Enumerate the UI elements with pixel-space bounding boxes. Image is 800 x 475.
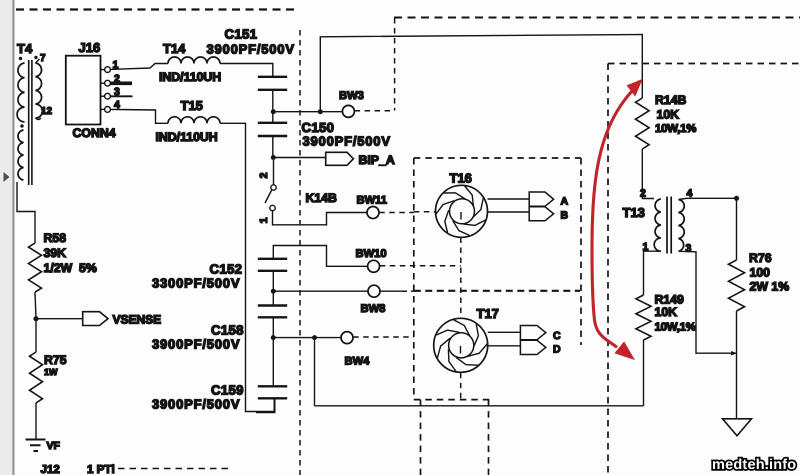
transformer T13 right winding <box>679 200 685 252</box>
node corner pin4 <box>734 196 739 201</box>
connector J16 body <box>66 56 101 125</box>
svg-text:CONN4: CONN4 <box>73 126 116 140</box>
resistor R76 <box>729 260 745 311</box>
wire C151 to C150 with BW3 tap <box>272 90 274 123</box>
transformer T4 right winding <box>36 63 43 118</box>
ball BW4 <box>341 332 353 344</box>
dashed box right region (left edge) <box>607 64 609 475</box>
dashed line bottom left <box>118 468 233 470</box>
scrollbar sidebar <box>0 0 15 475</box>
switch K14B contact 2 <box>271 185 276 190</box>
wire switch to BW11 <box>273 211 368 225</box>
wire cap chain to BW3 <box>276 111 343 113</box>
wire T14 to C151 <box>220 64 273 77</box>
node VSENSE junction <box>33 316 38 321</box>
wire to BIP_A flag <box>273 157 325 159</box>
svg-text:100: 100 <box>750 266 771 280</box>
wire R76 to ground <box>736 311 738 418</box>
svg-text:BW3: BW3 <box>339 90 364 102</box>
svg-text:R14B: R14B <box>655 93 687 107</box>
svg-text:1/2W: 1/2W <box>44 261 73 275</box>
svg-text:2: 2 <box>258 172 270 178</box>
svg-text:R58: R58 <box>44 231 67 245</box>
svg-text:C158: C158 <box>211 323 244 338</box>
fan T17 blades <box>436 320 487 372</box>
transformer T13 left winding <box>654 199 661 251</box>
svg-text:B: B <box>561 210 569 222</box>
wire to BW4 <box>273 337 341 339</box>
svg-text:10K: 10K <box>655 305 678 319</box>
svg-text:T16: T16 <box>450 171 472 186</box>
svg-text:3900PF/500V: 3900PF/500V <box>152 397 240 412</box>
svg-text:1W: 1W <box>44 367 58 377</box>
wire T4 bottom to R58 <box>17 182 35 243</box>
transformer T4 left upper winding <box>17 63 24 122</box>
svg-text:3900PF/500V: 3900PF/500V <box>303 134 391 149</box>
arrow D <box>520 340 545 354</box>
fan T17 inner <box>449 333 474 358</box>
dashed BW8 to box <box>402 290 414 292</box>
node BW3 tap junction <box>271 109 276 114</box>
dashed box T16 left edge (extends to T17) <box>413 158 415 400</box>
svg-text:12: 12 <box>41 106 53 117</box>
node rail drop junction <box>312 335 317 340</box>
arrow C <box>520 326 545 340</box>
wire BW8 right <box>380 290 402 292</box>
fan T17 hub mark <box>460 346 462 354</box>
resistor R149 <box>636 295 651 340</box>
arrow A <box>529 192 553 206</box>
svg-text:3: 3 <box>686 243 692 255</box>
wire R14B to T13 pin2 <box>642 149 654 199</box>
dashed fan column T16-T17 <box>460 238 462 319</box>
wire C152 to C158 with BW8 tap <box>272 271 274 306</box>
stub J16 pin2 <box>110 82 132 86</box>
wire R58 to junction <box>35 292 36 319</box>
ball BW11 <box>367 207 379 219</box>
wire fan T17 to arrow D <box>488 345 521 347</box>
T4 pin7 stub <box>36 59 40 63</box>
resistor R14B <box>636 98 650 149</box>
ground triangle <box>723 419 752 436</box>
dashed drop to BW3 <box>394 18 396 111</box>
wire J16 pin4 to T15 <box>110 109 168 123</box>
dashed BW10 to fan column <box>380 265 461 267</box>
capacitor C158 <box>258 306 287 318</box>
wire fan T17 to arrow C <box>488 331 521 333</box>
wire rail drop <box>314 338 316 406</box>
svg-text:K14B: K14B <box>306 191 338 205</box>
wire R149 to bottom rail <box>643 340 645 406</box>
svg-text:T4: T4 <box>17 41 33 56</box>
J16 pin 3 circle <box>105 93 111 99</box>
svg-text:10K: 10K <box>657 108 680 122</box>
dashed pedestal T17 <box>460 373 462 400</box>
wire fan T16 to arrow B <box>488 211 530 213</box>
svg-text:J16: J16 <box>79 40 101 55</box>
transformer T4 core <box>29 60 32 185</box>
dashed box T16 top edge <box>414 157 581 159</box>
arrow B <box>529 207 553 221</box>
wire cap chain to BW10 <box>273 246 367 267</box>
scroll arrow <box>4 172 10 182</box>
flag BIP_A <box>326 152 354 165</box>
wire T15 to left rail <box>220 123 275 411</box>
svg-text:BW8: BW8 <box>361 303 386 315</box>
fan T16 blades <box>436 186 485 236</box>
wire to BW8 <box>273 290 368 292</box>
top dashed border right segment <box>394 17 800 19</box>
transformer T13 core <box>667 197 671 254</box>
svg-text:2W 1%: 2W 1% <box>750 280 790 294</box>
J16 pin 2 circle <box>105 80 111 86</box>
ground VF <box>26 440 46 452</box>
dashed box right region (top edge) <box>608 63 800 65</box>
node R76/T13 pin3 junction <box>731 351 738 355</box>
inductor T14 <box>168 57 220 64</box>
svg-text:BIP_A: BIP_A <box>359 153 395 167</box>
dashed box T16/T17 shared edge <box>414 290 580 292</box>
ball BW8 <box>368 285 380 297</box>
svg-text:C: C <box>553 330 561 342</box>
node BW8 junction <box>271 289 276 294</box>
inductor T15 <box>168 117 220 123</box>
wire C150 to switch junction <box>272 136 274 158</box>
fan T16 inner <box>450 199 475 224</box>
switch K14B contact 1 <box>270 205 275 210</box>
wire C159 bottom <box>256 398 275 412</box>
svg-text:3900PF/500V: 3900PF/500V <box>152 337 240 352</box>
svg-text:IND/110UH: IND/110UH <box>156 130 218 144</box>
svg-text:10W,1%: 10W,1% <box>655 123 696 135</box>
svg-text:T17: T17 <box>477 306 499 321</box>
svg-text:1 PTl: 1 PTl <box>87 463 115 475</box>
resistor R58 <box>29 243 42 292</box>
vertical dashed partition at x=300 <box>299 30 301 475</box>
svg-text:IND/110UH: IND/110UH <box>159 70 221 84</box>
wire R75 to ground <box>35 403 37 439</box>
svg-text:A: A <box>561 196 569 208</box>
node BW4 junction <box>271 335 276 340</box>
wire T13 pin3 down <box>679 251 734 353</box>
svg-text:7: 7 <box>40 53 46 64</box>
svg-text:3300PF/500V: 3300PF/500V <box>152 276 240 291</box>
dashed box T17 bottom edge <box>414 399 490 401</box>
capacitor C151 <box>258 77 287 90</box>
wire top rail from BW3 riser to R14B <box>320 35 642 112</box>
red annotation curve <box>592 81 641 359</box>
capacitor C150 <box>258 123 287 136</box>
svg-text:2: 2 <box>640 188 646 200</box>
stub J16 pin3 <box>110 95 132 97</box>
bottom rail <box>315 405 644 407</box>
fan T16 outer <box>436 185 488 237</box>
svg-text:BW11: BW11 <box>357 195 387 207</box>
switch K14B blade <box>265 190 272 203</box>
svg-text:medteh.info: medteh.info <box>712 457 796 473</box>
switch wire top <box>273 160 275 185</box>
dashed box T16 right edge <box>580 158 582 345</box>
svg-text:BW4: BW4 <box>345 356 371 368</box>
wire J16 pin1 to T14 <box>110 64 168 70</box>
T4 pin12 stub <box>36 118 42 120</box>
T4 phase dots <box>19 56 38 128</box>
dashed BW4 to box <box>353 336 414 338</box>
dashed BW3 to corner <box>355 110 395 112</box>
svg-text:5%: 5% <box>79 261 97 275</box>
top dashed border left segment <box>16 8 295 10</box>
svg-text:VF: VF <box>47 440 61 452</box>
ball BW10 <box>368 260 380 272</box>
svg-text:10W,1%: 10W,1% <box>655 322 696 334</box>
wire T13 pin4 to R76 <box>679 198 737 260</box>
svg-text:C159: C159 <box>211 383 244 398</box>
svg-text:VSENSE: VSENSE <box>113 313 162 327</box>
resistor R75 <box>30 352 43 403</box>
wire T13 pin1 to R149 <box>644 251 661 295</box>
J16 pin 1 circle <box>105 67 111 73</box>
svg-text:39K: 39K <box>44 246 67 260</box>
J16 pin 4 circle <box>105 107 111 113</box>
svg-text:C151: C151 <box>225 27 258 42</box>
capacitor C159 <box>258 386 287 398</box>
fan T17 outer <box>434 318 488 372</box>
fan T16 hub mark <box>460 212 462 220</box>
svg-text:1: 1 <box>258 217 270 223</box>
svg-text:T14: T14 <box>163 41 186 56</box>
transformer T4 left lower winding <box>18 130 24 180</box>
wire junction to R75 <box>35 319 37 352</box>
dashed inside box to fan T16 <box>414 211 436 213</box>
svg-text:T15: T15 <box>181 98 203 113</box>
svg-text:3900PF/500V: 3900PF/500V <box>207 42 295 57</box>
capacitor C152 <box>258 259 287 271</box>
dashed duct right below T17 <box>488 400 490 475</box>
svg-text:BW10: BW10 <box>356 248 387 260</box>
wire fan T16 to arrow A <box>488 198 530 200</box>
svg-text:R76: R76 <box>749 251 772 265</box>
svg-text:T13: T13 <box>623 205 645 220</box>
node BIP_A junction <box>271 155 276 160</box>
node top of BW3 riser <box>318 109 323 114</box>
dashed duct left below T17 <box>420 400 422 475</box>
svg-text:J12: J12 <box>41 463 60 475</box>
dashed BW11 to T16 box <box>379 212 414 214</box>
svg-text:C152: C152 <box>210 262 243 277</box>
svg-text:D: D <box>553 344 561 356</box>
wire to VSENSE flag <box>36 318 83 320</box>
flag VSENSE <box>83 312 108 326</box>
svg-text:R75: R75 <box>44 353 67 367</box>
wire C158 to C159 with BW4 tap <box>272 317 274 386</box>
ball BW3 <box>342 105 354 117</box>
